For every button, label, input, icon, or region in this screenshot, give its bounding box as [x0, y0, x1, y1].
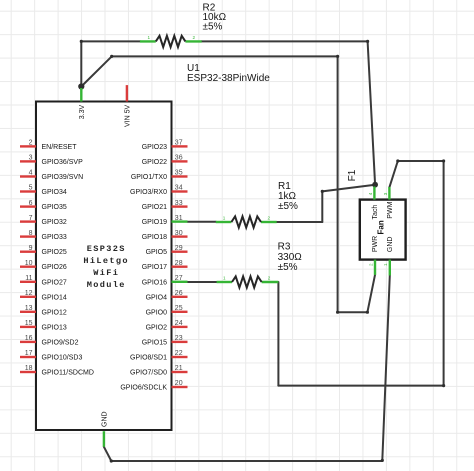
svg-text:9: 9 [29, 245, 33, 252]
wire fan PWR bottom horizontal [338, 311, 368, 313]
wire bottom GND horizontal [111, 460, 382, 462]
svg-text:GPIO4: GPIO4 [146, 294, 168, 301]
pin 2 EN/RESET [20, 140, 77, 151]
pin VIN 5V top [125, 85, 132, 127]
fuse F1 label [347, 169, 358, 181]
wire diagonal down to fan PWM pin [389, 161, 397, 187]
svg-text:15: 15 [25, 320, 33, 327]
svg-text:33: 33 [175, 200, 183, 207]
wire 3.3V junction up to R2 level [80, 41, 82, 86]
pin 8 GPIO33 [20, 230, 67, 241]
pin fan Tach (4) [368, 187, 375, 200]
svg-text:GND: GND [387, 237, 394, 253]
wire fan GND diagonal down [382, 276, 390, 461]
pin fan PWR (2) [368, 260, 375, 275]
svg-text:37: 37 [175, 140, 183, 147]
svg-text:GPIO34: GPIO34 [42, 189, 67, 196]
svg-text:GPIO0: GPIO0 [146, 309, 168, 316]
svg-text:Module: Module [87, 280, 126, 290]
svg-text:GPIO3/RX0: GPIO3/RX0 [130, 189, 167, 196]
svg-text:2: 2 [268, 275, 271, 280]
svg-text:30: 30 [175, 230, 183, 237]
svg-text:10: 10 [25, 260, 33, 267]
svg-text:PWR: PWR [372, 236, 379, 252]
svg-text:16: 16 [25, 335, 33, 342]
wire GPIO19 to R1 [188, 221, 217, 223]
pin 13 GPIO12 [20, 305, 67, 316]
pin 24 GPIO2 [146, 320, 188, 331]
pin 26 GPIO4 [146, 290, 188, 301]
svg-text:1: 1 [223, 215, 226, 220]
svg-text:GPIO1/TX0: GPIO1/TX0 [131, 174, 167, 181]
svg-text:22: 22 [175, 350, 183, 357]
pin 37 GPIO23 [142, 140, 188, 151]
wire 3.3V junction diagonal [81, 56, 111, 86]
pin 21 GPIO7/SD0 [130, 365, 187, 376]
wire R2 level horizontal to resistor [81, 40, 140, 42]
svg-text:17: 17 [25, 350, 33, 357]
svg-text:2: 2 [268, 215, 271, 220]
svg-text:29: 29 [175, 245, 183, 252]
pin 20 GPIO6/SDCLK [120, 380, 187, 391]
svg-text:GPIO17: GPIO17 [142, 264, 167, 271]
pin 36 GPIO22 [142, 155, 188, 166]
svg-text:6: 6 [29, 200, 33, 207]
svg-text:GPIO2: GPIO2 [146, 324, 168, 331]
pin 22 GPIO8/SD1 [130, 350, 187, 361]
svg-text:GPIO27: GPIO27 [42, 279, 67, 286]
pin 29 GPIO5 [146, 245, 188, 256]
svg-text:3: 3 [29, 155, 33, 162]
fan module body [360, 200, 406, 260]
svg-text:GPIO14: GPIO14 [42, 294, 67, 301]
label R1 value [278, 181, 298, 212]
svg-text:GPIO22: GPIO22 [142, 159, 167, 166]
wire R2 right to top-right corner [201, 40, 367, 42]
svg-text:18: 18 [25, 365, 33, 372]
svg-text:13: 13 [25, 305, 33, 312]
svg-text:VIN 5V: VIN 5V [125, 104, 132, 127]
pin GND bottom [102, 411, 109, 446]
svg-text:GPIO19: GPIO19 [142, 219, 167, 226]
wire PWM bottom horizontal [278, 385, 443, 387]
node 3.3V junction [78, 83, 84, 89]
pin 15 GPIO13 [20, 320, 67, 331]
node corner dots [80, 40, 446, 463]
svg-text:GPIO8/SD1: GPIO8/SD1 [130, 355, 167, 362]
node F1 junction [372, 182, 378, 188]
svg-text:GND: GND [102, 411, 109, 427]
svg-text:PWM: PWM [387, 201, 394, 218]
svg-text:20: 20 [175, 380, 183, 387]
svg-text:8: 8 [29, 230, 33, 237]
svg-text:5: 5 [29, 185, 33, 192]
svg-text:GPIO23: GPIO23 [142, 144, 167, 151]
svg-text:GPIO16: GPIO16 [142, 279, 167, 286]
pin 34 GPIO3/RX0 [130, 185, 187, 196]
svg-text:GPIO39/SVN: GPIO39/SVN [42, 174, 84, 181]
resistor R2 [140, 35, 202, 47]
pin 17 GPIO10/SD3 [20, 350, 82, 361]
svg-text:GPIO13: GPIO13 [42, 324, 67, 331]
pin 3 GPIO36/SVP [20, 155, 83, 166]
svg-text:GPIO36/SVP: GPIO36/SVP [42, 159, 84, 166]
wire diagonal up to fan PWR pin [367, 275, 375, 312]
pin 3.3V top [79, 88, 86, 119]
svg-text:GPIO21: GPIO21 [142, 204, 167, 211]
wire R3 corner down [277, 282, 279, 386]
pin fan GND (1) [383, 260, 390, 276]
svg-text:31: 31 [175, 215, 183, 222]
svg-text:ESP32-38PinWide: ESP32-38PinWide [187, 73, 270, 84]
svg-text:24: 24 [175, 320, 183, 327]
svg-text:28: 28 [175, 260, 183, 267]
label U1 designator [187, 63, 270, 84]
svg-text:GPIO11/SDCMD: GPIO11/SDCMD [42, 370, 94, 377]
pin 35 GPIO1/TX0 [131, 170, 188, 181]
pin 23 GPIO15 [142, 335, 188, 346]
pin 7 GPIO32 [20, 215, 67, 226]
wire corner down to R1 level [321, 191, 323, 222]
svg-text:11: 11 [25, 275, 32, 282]
svg-text:GPIO6/SDCLK: GPIO6/SDCLK [120, 385, 167, 392]
pin fan PWM (3) [383, 187, 390, 200]
wire top-right corner down to F1 junction [368, 41, 376, 184]
svg-text:Tach: Tach [372, 205, 379, 220]
pin 31 GPIO19 [142, 215, 188, 226]
wire F1 junction to corner above R1 [322, 185, 375, 192]
svg-text:3.3V: 3.3V [79, 104, 86, 119]
wire PWM top horizontal [398, 160, 444, 162]
resistor R3 [217, 275, 279, 287]
svg-text:4: 4 [368, 192, 373, 195]
wire 3.3V horizontal run to fan column [112, 55, 338, 57]
pin 16 GPIO9/SD2 [20, 335, 79, 346]
svg-text:GPIO15: GPIO15 [142, 339, 167, 346]
svg-text:F1: F1 [347, 169, 358, 181]
svg-text:GPIO35: GPIO35 [42, 204, 67, 211]
svg-text:36: 36 [175, 155, 183, 162]
pin 12 GPIO14 [20, 290, 67, 301]
svg-text:1: 1 [223, 275, 226, 280]
svg-text:2: 2 [193, 35, 196, 40]
svg-text:1: 1 [148, 35, 151, 40]
svg-text:GPIO33: GPIO33 [42, 234, 67, 241]
wire fan PWR column vertical [337, 56, 339, 312]
resistor R1 [216, 215, 277, 227]
pin 18 GPIO11/SDCMD [20, 365, 94, 376]
label R2 value [203, 3, 227, 33]
svg-text:WiFi: WiFi [93, 268, 119, 278]
svg-text:7: 7 [29, 215, 33, 222]
svg-text:1: 1 [383, 263, 388, 266]
svg-text:2: 2 [368, 263, 373, 266]
svg-text:GPIO10/SD3: GPIO10/SD3 [42, 355, 83, 362]
svg-text:GPIO9/SD2: GPIO9/SD2 [42, 339, 79, 346]
svg-text:12: 12 [25, 290, 33, 297]
pin 5 GPIO34 [20, 185, 67, 196]
svg-text:26: 26 [175, 290, 183, 297]
pin 11 GPIO27 [20, 275, 67, 286]
pin 30 GPIO18 [142, 230, 188, 241]
svg-text:34: 34 [175, 185, 183, 192]
svg-text:GPIO32: GPIO32 [42, 219, 67, 226]
pin 9 GPIO25 [20, 245, 67, 256]
pin 33 GPIO21 [142, 200, 188, 211]
wire ESP GND diagonal [104, 447, 111, 461]
wire PWM right vertical [443, 161, 445, 386]
label R3 value [278, 242, 303, 273]
svg-text:GPIO7/SD0: GPIO7/SD0 [130, 370, 167, 377]
svg-text:GPIO5: GPIO5 [146, 249, 168, 256]
svg-text:GPIO12: GPIO12 [42, 309, 67, 316]
svg-text:±5%: ±5% [278, 262, 298, 273]
svg-text:GPIO25: GPIO25 [42, 249, 67, 256]
svg-text:35: 35 [175, 170, 183, 177]
pin 25 GPIO0 [146, 305, 188, 316]
pin 4 GPIO39/SVN [20, 170, 83, 181]
svg-text:4: 4 [29, 170, 33, 177]
pin 27 GPIO16 [142, 275, 188, 286]
svg-text:HiLetgo: HiLetgo [83, 256, 129, 266]
svg-text:EN/RESET: EN/RESET [42, 144, 78, 151]
wire GPIO16 to R3 [188, 281, 217, 283]
svg-text:GPIO18: GPIO18 [142, 234, 167, 241]
svg-text:21: 21 [175, 365, 183, 372]
svg-text:3: 3 [383, 192, 388, 195]
svg-text:±5%: ±5% [278, 201, 298, 212]
svg-text:27: 27 [175, 275, 183, 282]
svg-text:±5%: ±5% [203, 22, 223, 33]
pin 10 GPIO26 [20, 260, 67, 271]
svg-text:Fan: Fan [376, 220, 385, 234]
svg-text:ESP32S: ESP32S [87, 244, 126, 254]
svg-text:2: 2 [29, 140, 33, 147]
pin 6 GPIO35 [20, 200, 67, 211]
svg-text:25: 25 [175, 305, 183, 312]
pin 28 GPIO17 [142, 260, 188, 271]
IC U1 ESP32S module body [36, 102, 172, 431]
svg-text:23: 23 [175, 335, 183, 342]
svg-text:GPIO26: GPIO26 [42, 264, 67, 271]
wire R1 right lead to corner [277, 221, 323, 223]
